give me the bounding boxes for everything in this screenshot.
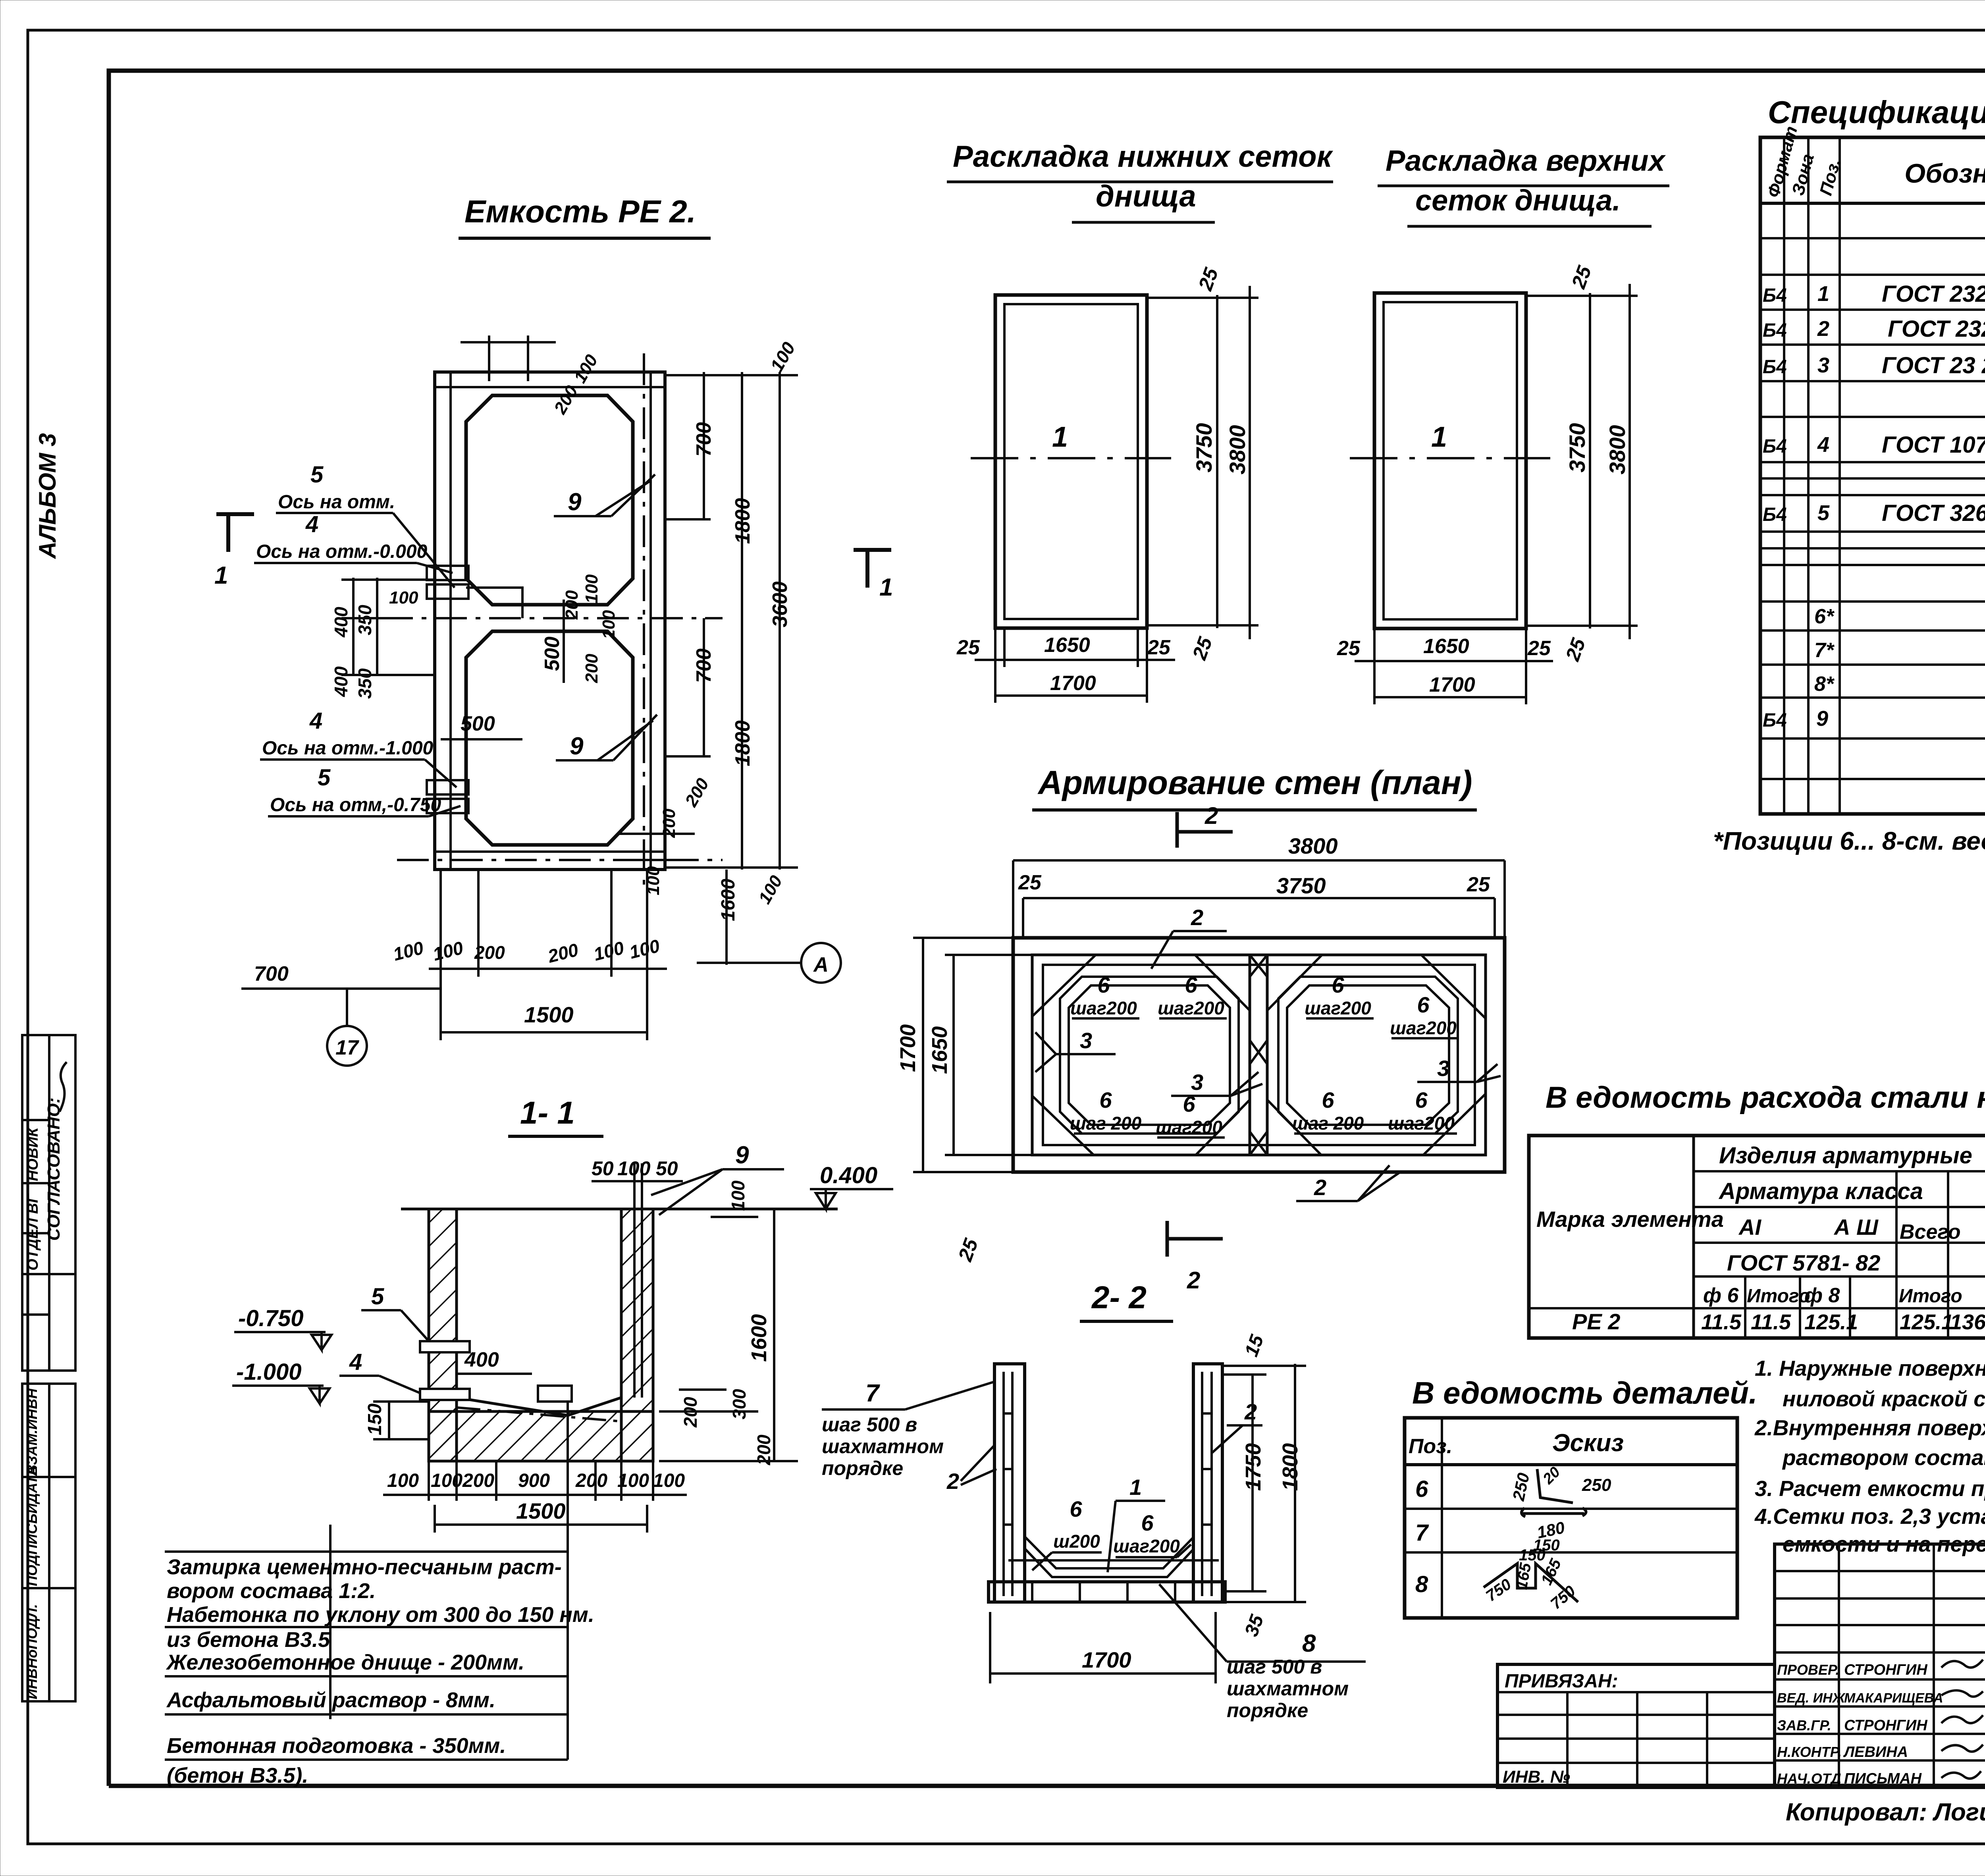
svg-text:200: 200 <box>462 1470 494 1491</box>
section mark 1 right <box>865 550 869 588</box>
svg-text:ш200: ш200 <box>1053 1531 1100 1552</box>
svg-text:1: 1 <box>1129 1475 1142 1500</box>
svg-text:100: 100 <box>431 1470 463 1491</box>
svg-text:шаг 200: шаг 200 <box>1070 1113 1142 1134</box>
steel col marka <box>1692 1136 1695 1338</box>
svg-text:700: 700 <box>254 962 289 985</box>
svg-text:шаг 200: шаг 200 <box>1292 1113 1364 1134</box>
steel col lines <box>1744 1276 1746 1338</box>
svg-text:17: 17 <box>335 1036 359 1059</box>
grid bubble A <box>801 943 841 983</box>
sketch 7 <box>1521 1508 1586 1517</box>
svg-text:Набетонка по уклону от 300 до: Набетонка по уклону от 300 до 150 нм. <box>167 1603 594 1627</box>
svg-text:1: 1 <box>214 562 228 589</box>
svg-text:250: 250 <box>1582 1475 1611 1495</box>
svg-text:25: 25 <box>1194 264 1222 293</box>
svg-text:100: 100 <box>728 1180 748 1211</box>
svg-text:Б4: Б4 <box>1763 320 1787 341</box>
mesh 1 axis dash-dot <box>971 457 1171 459</box>
mesh panel 1 inner <box>1004 304 1138 619</box>
spec header bottom <box>1760 202 1985 205</box>
sec22 bottom slab <box>989 1582 1225 1602</box>
cell1 rebar octagon <box>1060 977 1239 1134</box>
svg-text:6: 6 <box>1141 1510 1154 1535</box>
svg-text:3750: 3750 <box>1191 423 1216 472</box>
svg-text:шаг200: шаг200 <box>1158 998 1224 1018</box>
mesh 1 top extension lines <box>1147 297 1258 299</box>
svg-text:ПРИВЯЗАН:: ПРИВЯЗАН: <box>1505 1671 1618 1692</box>
svg-text:3: 3 <box>1080 1028 1092 1053</box>
svg-text:25: 25 <box>954 1235 982 1264</box>
svg-text:ЛЕВИНА: ЛЕВИНА <box>1843 1744 1908 1760</box>
svg-text:5: 5 <box>1817 501 1830 525</box>
svg-text:3750: 3750 <box>1565 423 1590 472</box>
svg-text:136.6: 136.6 <box>1950 1310 1985 1334</box>
svg-text:А Ш: А Ш <box>1833 1215 1879 1240</box>
svg-text:250: 250 <box>1509 1471 1533 1503</box>
detail table box <box>1405 1418 1737 1618</box>
svg-text:1500: 1500 <box>516 1498 566 1523</box>
cell 2 octagon opening <box>466 631 633 845</box>
svg-text:Б4: Б4 <box>1763 357 1787 378</box>
svg-text:3: 3 <box>1191 1070 1203 1095</box>
middle wall notch rectangle <box>466 588 522 618</box>
section mark 2 bottom <box>1166 1221 1169 1257</box>
bottom dim extensions <box>439 870 442 1040</box>
svg-text:ГОСТ 5781- 82: ГОСТ 5781- 82 <box>1727 1250 1880 1275</box>
svg-text:8: 8 <box>1302 1630 1316 1657</box>
svg-text:В едомость деталей.: В едомость деталей. <box>1412 1375 1758 1410</box>
svg-text:Емкость РЕ 2.: Емкость РЕ 2. <box>464 194 696 229</box>
top small dim lines <box>488 335 490 381</box>
middle wall X braces <box>1250 955 1267 1155</box>
svg-text:ф 8: ф 8 <box>1804 1284 1840 1307</box>
svg-text:из бетона В3.5: из бетона В3.5 <box>167 1628 330 1652</box>
svg-text:1800: 1800 <box>731 498 754 544</box>
amendments signatures <box>1941 1660 1983 1779</box>
sec11 right wall hatched <box>621 1209 653 1461</box>
svg-text:СОГЛАСОВАНО:: СОГЛАСОВАНО: <box>44 1097 64 1241</box>
svg-text:200: 200 <box>681 775 713 810</box>
svg-text:3: 3 <box>1817 353 1829 377</box>
svg-text:шаг200: шаг200 <box>1070 998 1137 1018</box>
svg-text:шаг200: шаг200 <box>1305 998 1371 1018</box>
mesh 1 bottom dim line 1 <box>975 659 1175 661</box>
svg-text:ниловой краской светлых тонов.: ниловой краской светлых тонов. <box>1783 1386 1985 1411</box>
svg-text:порядке: порядке <box>822 1457 903 1479</box>
svg-text:шахматном: шахматном <box>1227 1677 1349 1700</box>
svg-text:Марка элемента: Марка элемента <box>1536 1207 1724 1232</box>
cell2 rebar octagon inner <box>1287 985 1449 1125</box>
svg-text:В едомость расхода стали на эл: В едомость расхода стали на элемент, кГ <box>1546 1081 1985 1114</box>
notes top rule <box>165 1550 568 1553</box>
svg-text:Ось на отм,-0.750: Ось на отм,-0.750 <box>270 794 441 816</box>
svg-text:ГОСТ 10704-76: ГОСТ 10704-76 <box>1882 432 1985 458</box>
svg-text:0.400: 0.400 <box>820 1163 877 1188</box>
right dim chain 700 (cell1) <box>703 372 705 520</box>
svg-text:ГОСТ 3262-75: ГОСТ 3262-75 <box>1882 500 1985 526</box>
svg-text:500: 500 <box>541 636 564 671</box>
svg-text:шаг200: шаг200 <box>1156 1117 1222 1138</box>
svg-text:шаг200: шаг200 <box>1388 1113 1455 1134</box>
svg-text:ПИСЬМАН: ПИСЬМАН <box>1844 1770 1922 1787</box>
svg-text:2: 2 <box>1244 1399 1257 1424</box>
svg-text:200: 200 <box>582 654 601 683</box>
svg-text:200: 200 <box>575 1470 607 1491</box>
mesh 2 right dim 3800 <box>1628 284 1631 639</box>
sec22 right wall <box>1193 1364 1222 1602</box>
svg-text:1: 1 <box>1817 282 1829 306</box>
svg-text:200: 200 <box>562 590 582 620</box>
svg-text:2- 2: 2- 2 <box>1091 1280 1147 1315</box>
svg-text:3600: 3600 <box>769 581 792 627</box>
middle wall lines <box>1249 955 1251 1155</box>
svg-text:Бетонная подготовка - 350мм.: Бетонная подготовка - 350мм. <box>167 1734 506 1758</box>
left stamp A rows <box>22 1119 49 1121</box>
svg-text:3750: 3750 <box>1276 873 1326 898</box>
svg-text:-0.750: -0.750 <box>238 1305 303 1331</box>
svg-text:125.1: 125.1 <box>1804 1310 1858 1334</box>
svg-text:100: 100 <box>766 338 800 375</box>
svg-text:25: 25 <box>1018 871 1042 894</box>
svg-text:Б4: Б4 <box>1763 504 1787 525</box>
leader from 17 <box>346 989 348 1026</box>
sec11 left wall hatched <box>429 1209 457 1461</box>
long extension vertical <box>329 1525 331 1719</box>
extensions below slab <box>428 1461 430 1501</box>
svg-text:400: 400 <box>331 666 351 697</box>
sec11 wall rebar lines <box>633 1163 636 1398</box>
steel data row line <box>1529 1307 1985 1309</box>
svg-text:А: А <box>813 953 829 976</box>
svg-text:шаг 500 в: шаг 500 в <box>822 1413 917 1436</box>
svg-text:100: 100 <box>570 351 601 386</box>
left stamp table B box <box>22 1384 75 1701</box>
svg-text:1650: 1650 <box>1044 634 1090 657</box>
svg-text:6: 6 <box>1185 972 1197 997</box>
svg-text:400: 400 <box>464 1348 499 1371</box>
svg-text:Железобетонное днище - 200мм.: Железобетонное днище - 200мм. <box>166 1650 524 1674</box>
svg-text:1800: 1800 <box>731 720 754 766</box>
svg-text:7*: 7* <box>1814 639 1835 662</box>
section mark 2 top <box>1176 812 1179 848</box>
svg-text:200: 200 <box>545 939 580 967</box>
tank plan outer wall <box>435 372 665 870</box>
svg-text:ВЕД. ИНЖ: ВЕД. ИНЖ <box>1777 1691 1846 1706</box>
svg-text:8: 8 <box>1415 1571 1428 1597</box>
tank plan inner wall lines <box>449 372 452 870</box>
svg-text:шаг200: шаг200 <box>1113 1536 1180 1556</box>
svg-text:*Позиции 6... 8-см. ведомость: *Позиции 6... 8-см. ведомость деталей на… <box>1713 827 1985 855</box>
svg-text:раствором состава 1:2 за 2 раз: раствором состава 1:2 за 2 раза на толщи… <box>1782 1445 1985 1470</box>
svg-text:ВЗАМ.ИНВН: ВЗАМ.ИНВН <box>24 1388 40 1475</box>
right dim chain 1800 (cell1) <box>741 372 743 870</box>
svg-text:1700: 1700 <box>896 1024 920 1072</box>
svg-text:2: 2 <box>1314 1175 1326 1200</box>
svg-text:НОВИК: НОВИК <box>25 1126 41 1181</box>
steel header row1 line <box>1694 1170 1985 1172</box>
svg-text:Раскладка нижних сеток: Раскладка нижних сеток <box>953 140 1334 174</box>
svg-text:35: 35 <box>1241 1612 1268 1639</box>
svg-text:МАКАРИЩЕВА: МАКАРИЩЕВА <box>1844 1691 1943 1706</box>
svg-text:4: 4 <box>1817 433 1829 457</box>
svg-text:шаг 500 в: шаг 500 в <box>1227 1656 1322 1678</box>
sec11 inner floor slope <box>457 1398 621 1415</box>
svg-text:900: 900 <box>518 1470 550 1491</box>
mesh 2 axis dash-dot <box>1350 457 1550 459</box>
sec11 bottom slab hatched <box>429 1411 653 1461</box>
svg-text:Всего: Всего <box>1900 1220 1961 1244</box>
left stamp B rows <box>22 1476 75 1478</box>
svg-text:750: 750 <box>1483 1575 1515 1605</box>
notes rule3 <box>165 1675 568 1677</box>
svg-text:6*: 6* <box>1814 605 1835 628</box>
cell2 rebar octagon <box>1278 977 1458 1134</box>
cell 1 octagon opening <box>466 395 633 605</box>
steel header row3 line <box>1694 1242 1985 1244</box>
svg-text:9: 9 <box>570 733 584 760</box>
svg-text:100: 100 <box>755 872 786 907</box>
svg-text:700: 700 <box>692 648 715 683</box>
svg-text:100: 100 <box>582 574 601 603</box>
sec11 top ground line <box>401 1208 838 1211</box>
spec table outer box <box>1760 137 1985 814</box>
title block amendments grid <box>1775 1544 1985 1787</box>
svg-text:5: 5 <box>318 765 331 791</box>
sec22 inner U rebar outer <box>1025 1537 1193 1568</box>
mesh panel 1 outer <box>995 295 1147 628</box>
svg-text:3800: 3800 <box>1288 833 1338 858</box>
wall plan inner rect <box>1032 955 1486 1155</box>
svg-text:Б4: Б4 <box>1763 285 1787 306</box>
small dim lines left of plan <box>352 578 355 675</box>
svg-text:100: 100 <box>592 937 626 965</box>
svg-text:6: 6 <box>1099 1087 1112 1112</box>
dim extension top right <box>665 374 798 376</box>
svg-text:1650: 1650 <box>928 1026 952 1074</box>
svg-text:Н.КОНТР.: Н.КОНТР. <box>1777 1744 1842 1760</box>
mesh 2 top extension lines <box>1526 295 1638 297</box>
sketch 8 <box>1484 1564 1578 1602</box>
svg-text:8*: 8* <box>1814 673 1835 696</box>
svg-text:9: 9 <box>568 488 582 516</box>
sec22 right wall rebar ticks <box>1202 1413 1212 1525</box>
svg-text:Б4: Б4 <box>1763 710 1787 731</box>
svg-text:100: 100 <box>391 937 426 965</box>
svg-text:9: 9 <box>1816 707 1828 731</box>
svg-text:Поз.: Поз. <box>1409 1435 1452 1458</box>
frame bottom edge <box>109 1784 1985 1788</box>
steel header row2 line <box>1694 1206 1985 1208</box>
cell1 rebar octagon inner <box>1069 985 1230 1125</box>
svg-text:15: 15 <box>1241 1332 1268 1359</box>
svg-text:300: 300 <box>729 1389 750 1419</box>
notes rule5 <box>165 1758 568 1761</box>
svg-text:Копировал: Логинова: Копировал: Логинова <box>1786 1799 1985 1826</box>
corner diagonals cell2 <box>1267 955 1322 1010</box>
steel table outer <box>1529 1136 1985 1338</box>
sec22 inner U rebar inner <box>1025 1548 1193 1577</box>
svg-text:350: 350 <box>355 605 375 635</box>
svg-text:1700: 1700 <box>1050 672 1096 695</box>
svg-text:1. Наружные поверхности емкост: 1. Наружные поверхности емкости, выше от… <box>1755 1356 1985 1380</box>
svg-text:Асфальтовый раствор - 8мм.: Асфальтовый раствор - 8мм. <box>166 1688 495 1712</box>
svg-text:100: 100 <box>617 1157 651 1180</box>
svg-text:25: 25 <box>1561 635 1590 664</box>
svg-text:1: 1 <box>1052 421 1068 453</box>
svg-text:9: 9 <box>735 1141 749 1169</box>
svg-text:1500: 1500 <box>524 1002 574 1027</box>
svg-text:1600: 1600 <box>718 879 739 921</box>
svg-text:100: 100 <box>387 1470 419 1491</box>
privyazan box <box>1497 1664 1775 1787</box>
svg-text:3800: 3800 <box>1225 425 1250 474</box>
bottom dim line 1 <box>429 968 667 970</box>
sketch 6 <box>1537 1469 1573 1503</box>
svg-text:6: 6 <box>1417 992 1430 1017</box>
right dim 3600 <box>779 372 781 870</box>
svg-text:4: 4 <box>309 708 322 734</box>
svg-text:2: 2 <box>946 1469 959 1494</box>
svg-text:ОТДЕЛ ВГ: ОТДЕЛ ВГ <box>25 1193 41 1271</box>
svg-text:5: 5 <box>310 462 324 488</box>
svg-text:6: 6 <box>1097 972 1110 997</box>
svg-text:150: 150 <box>1519 1546 1546 1564</box>
svg-text:4.Сетки поз. 2,3 устанавливать: 4.Сетки поз. 2,3 устанавливать свободным… <box>1754 1504 1985 1529</box>
sec22 left wall rebar ticks <box>1004 1413 1012 1525</box>
svg-text:(бетон В3.5).: (бетон В3.5). <box>167 1764 308 1787</box>
svg-text:700: 700 <box>692 422 715 457</box>
svg-text:1700: 1700 <box>1082 1647 1131 1672</box>
svg-text:6: 6 <box>1415 1087 1428 1112</box>
axis dash-dot vertical near right wall <box>643 353 645 893</box>
svg-text:1800: 1800 <box>1278 1443 1302 1491</box>
svg-text:3: 3 <box>1437 1056 1449 1081</box>
svg-text:ИНВ. №: ИНВ. № <box>1503 1767 1570 1787</box>
svg-text:6: 6 <box>1415 1476 1428 1502</box>
svg-text:вором состава 1:2.: вором состава 1:2. <box>167 1579 376 1603</box>
mesh 1 right dim 3800 <box>1249 286 1251 639</box>
svg-text:днища: днища <box>1096 179 1196 213</box>
sec11 floor dashdot <box>457 1407 621 1421</box>
mesh panel 2 inner <box>1384 302 1517 619</box>
svg-text:ф 6: ф 6 <box>1703 1284 1739 1307</box>
svg-text:6: 6 <box>1070 1496 1082 1521</box>
leader from A <box>697 962 801 964</box>
svg-text:ГОСТ 23279-85: ГОСТ 23279-85 <box>1888 316 1985 342</box>
spec table column lines <box>1783 137 1785 814</box>
svg-text:ПОДПИСЬИДАТА: ПОДПИСЬИДАТА <box>24 1465 40 1586</box>
mesh 1 bottom extensions <box>994 628 996 703</box>
svg-text:ЗАВ.ГР.: ЗАВ.ГР. <box>1777 1717 1831 1733</box>
svg-text:5: 5 <box>371 1284 384 1309</box>
svg-text:25: 25 <box>1467 873 1490 896</box>
svg-text:100: 100 <box>653 1470 685 1491</box>
svg-text:АЛЬБОМ 3: АЛЬБОМ 3 <box>34 433 61 559</box>
notes rule2 <box>165 1626 568 1628</box>
svg-text:25: 25 <box>956 636 980 659</box>
svg-text:2.Внутренняя поверхность стен: 2.Внутренняя поверхность стен торкретиру… <box>1754 1415 1985 1440</box>
grid bubble 17 <box>327 1026 367 1066</box>
svg-text:1600: 1600 <box>747 1314 771 1362</box>
embed plates sec11 <box>420 1341 470 1352</box>
svg-text:Ось на отм.-0.000: Ось на отм.-0.000 <box>256 541 428 562</box>
svg-text:АI: АI <box>1738 1215 1761 1240</box>
mesh panel 2 outer <box>1374 293 1526 629</box>
detail table rows <box>1405 1463 1737 1466</box>
axis dash-dot bottom wall <box>397 859 723 861</box>
steel header row4 line <box>1694 1275 1985 1278</box>
embed plate top pair <box>427 566 468 580</box>
detail table col <box>1441 1418 1443 1618</box>
svg-text:100: 100 <box>389 588 418 607</box>
svg-text:1: 1 <box>879 574 893 601</box>
svg-text:100: 100 <box>627 935 662 963</box>
left stamp table A divider <box>48 1035 50 1371</box>
sec11 small box on floor <box>538 1386 572 1402</box>
svg-text:Арматура класса: Арматура класса <box>1718 1178 1923 1204</box>
svg-text:2: 2 <box>1187 1267 1200 1294</box>
svg-text:1700: 1700 <box>1429 673 1475 696</box>
sec22 left wall <box>994 1364 1025 1602</box>
svg-text:Обозначение: Обозначение <box>1904 158 1985 189</box>
right dim 700 (cell2) <box>703 618 705 756</box>
notes right edge <box>567 1552 569 1760</box>
embed plate bottom pair <box>427 780 468 794</box>
svg-text:50: 50 <box>592 1157 614 1180</box>
svg-text:1: 1 <box>1431 421 1447 453</box>
sec22 slab rebar ticks <box>1032 1582 1175 1602</box>
svg-text:6: 6 <box>1322 1087 1334 1112</box>
svg-text:Ось на отм.-1.000: Ось на отм.-1.000 <box>262 738 434 759</box>
svg-text:НАЧ.ОТД: НАЧ.ОТД <box>1777 1770 1841 1787</box>
svg-text:ИНВНоПОДЛ.: ИНВНоПОДЛ. <box>24 1604 40 1699</box>
mesh 2 right dim 3750 <box>1589 293 1591 629</box>
svg-text:500: 500 <box>461 712 495 735</box>
notes rule4 <box>165 1713 568 1716</box>
top dim extensions <box>1012 860 1014 938</box>
svg-text:400: 400 <box>331 607 351 638</box>
svg-text:Раскладка верхних: Раскладка верхних <box>1386 144 1666 177</box>
svg-text:11.5: 11.5 <box>1701 1310 1742 1334</box>
svg-text:2: 2 <box>1191 905 1203 930</box>
svg-text:Армирование стен (план): Армирование стен (план) <box>1037 764 1472 801</box>
svg-text:25: 25 <box>1188 634 1216 663</box>
svg-text:Итого: Итого <box>1747 1286 1810 1307</box>
svg-text:4: 4 <box>305 511 318 537</box>
mesh 2 bottom dim line <box>1355 660 1553 662</box>
svg-text:7: 7 <box>1415 1520 1429 1546</box>
axis dash-dot between cells <box>381 617 723 619</box>
section mark 1 left <box>226 514 230 552</box>
svg-text:4: 4 <box>349 1349 362 1375</box>
svg-text:3. Расчет емкости произведен п: 3. Расчет емкости произведен при объёмно… <box>1755 1476 1985 1501</box>
svg-text:шахматном: шахматном <box>822 1435 944 1458</box>
svg-text:25: 25 <box>1147 636 1171 659</box>
svg-text:50: 50 <box>656 1157 678 1180</box>
sec22 horizontal rebar <box>1008 1559 1219 1562</box>
wall plan second inner <box>1043 965 1475 1145</box>
svg-text:Ось на отм.: Ось на отм. <box>278 492 395 513</box>
svg-text:Изделия арматурные: Изделия арматурные <box>1719 1143 1972 1168</box>
svg-text:порядке: порядке <box>1227 1699 1308 1722</box>
svg-text:11.5: 11.5 <box>1751 1310 1791 1334</box>
svg-text:20: 20 <box>1540 1464 1563 1488</box>
left stamp table A box <box>22 1035 75 1371</box>
svg-text:-1.000: -1.000 <box>236 1359 301 1385</box>
svg-text:ГОСТ 23 279-85: ГОСТ 23 279-85 <box>1882 353 1985 378</box>
svg-text:350: 350 <box>355 668 375 699</box>
